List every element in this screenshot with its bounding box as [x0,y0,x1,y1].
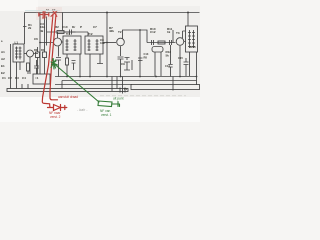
wire scan artifact [25,10,60,12]
capacitor C11 [152,40,154,45]
red text labels [42,16,78,119]
svg-text:4k: 4k [40,29,44,33]
svg-text:Tr1: Tr1 [66,32,71,36]
wire T2 collector loop [123,30,148,77]
capacitor C12 [170,40,172,45]
wire L1 leads [11,62,21,89]
output transformer box [186,26,198,52]
svg-text:R8: R8 [144,56,148,60]
faint fold line [100,95,186,97]
red scribble X [51,11,57,17]
capacitor C10 [124,58,130,71]
capacitor C13b [168,45,172,77]
red scan bleed halo [36,7,62,20]
svg-text:P: P [80,25,82,29]
wire R4 leads [44,46,46,75]
wire ferrite rod [10,44,12,62]
resistor R3 [36,52,40,58]
svg-text:R4: R4 [41,48,45,52]
diode green annotation symbol [98,101,120,107]
svg-text:uit punt: uit punt [113,97,124,101]
box bottom left [33,74,50,84]
wire T1 stage row [47,13,88,33]
coil Tr3b [192,30,195,48]
resistor R4 [43,52,47,58]
svg-text:A2: A2 [1,57,5,61]
svg-text:verst. 2: verst. 2 [50,115,61,119]
node [106,42,108,44]
wire x173 link [172,77,174,91]
svg-text:Tr2: Tr2 [88,32,93,36]
green text labels [100,97,124,118]
wire red highlight B [50,14,58,100]
svg-text:T2: T2 [118,30,122,34]
svg-text:C13: C13 [144,52,149,56]
svg-text:E1: E1 [1,64,5,68]
coil Tr3a [188,30,191,48]
svg-text:R3: R3 [15,76,19,80]
svg-text:E2: E2 [1,71,5,75]
transistor T1b circle [54,38,62,46]
resistor R9 [158,41,165,44]
wire box leads [190,52,197,76]
resistor R1 [27,63,30,71]
node top rail junction 1 [106,12,108,14]
wire detector row [103,42,116,44]
wire rail y76 [55,76,197,78]
svg-text:R2: R2 [55,25,59,29]
electrolytic C14 box [152,47,163,53]
svg-text:aansluit draad: aansluit draad [58,95,78,99]
wire shielded pair [45,13,47,40]
green scribble arrowhead [51,59,58,70]
wire left vertical [23,13,40,75]
label text small component values [1,8,196,91]
diode red annotation symbol [48,105,67,111]
svg-text:verst. 1: verst. 1 [101,113,112,117]
svg-text:C14: C14 [165,64,170,68]
svg-text:1k: 1k [167,30,171,34]
svg-text:R3: R3 [34,48,38,52]
svg-text:L1: L1 [15,41,19,45]
svg-text:A1: A1 [1,50,5,54]
annotation green lines [51,59,120,107]
svg-text:C2: C2 [8,76,12,80]
svg-text:C15: C15 [178,56,183,60]
IF transformer Tr1 box [63,36,81,54]
coil L1b [19,47,22,60]
svg-text:C6: C6 [34,37,38,41]
svg-text:C10: C10 [62,25,68,29]
wire Tr2 leads [90,54,103,77]
svg-text:9V: 9V [124,87,127,91]
capacitor red C [39,11,49,18]
wire C14 leads [147,43,161,77]
transistor T2 circle [117,38,125,46]
wire T2 emitter [120,46,122,56]
capacitor C9 [118,57,124,77]
capacitor C15 [184,58,189,76]
wire drop to Tr2 [87,32,89,36]
wire output transformer drop [187,13,189,27]
svg-text:C7: C7 [93,25,97,29]
wire battery drop [122,77,124,87]
wire T1b leads [40,32,63,57]
bus bar right [131,85,200,90]
wire [131,60,133,70]
wire x196 link [196,77,198,86]
capacitor C5 [56,58,61,77]
IF transformer Tr2 box [85,36,103,54]
wire T1 leads [30,54,38,75]
wire rail y84 [55,84,132,86]
paper background [0,0,200,122]
wire x112 [111,77,113,92]
svg-text:5k: 5k [166,54,170,58]
bus bar left [7,89,128,92]
svg-text:42k: 42k [109,29,114,33]
svg-text:- bah -: - bah - [77,108,88,112]
node rail dots [66,76,197,78]
coil Tr2b [96,39,99,51]
transistor T1 circle [27,50,34,57]
battery B1 [120,87,125,94]
wire T1 base [24,53,27,55]
coil Tr1a [66,39,69,51]
wire R3 leads [37,47,39,74]
svg-text:T3: T3 [176,31,180,35]
resistor R2 [57,31,64,34]
wire R1 lead [27,71,29,74]
transformer L1 box [13,44,24,62]
wire output row [147,42,176,44]
capacitor C4 [64,30,76,35]
node top rail junction 2 [187,12,189,14]
svg-text:C9: C9 [121,62,125,66]
wire R10 drop [172,30,174,43]
svg-text:C1: C1 [2,76,6,80]
node [139,29,141,31]
wire x62 link [61,81,63,89]
annotation red lines [39,11,67,111]
wire Tr1 leads [67,54,80,77]
wire green highlight diagonal [52,62,99,102]
capacitor C7 [72,61,76,71]
svg-text:10n: 10n [100,41,105,45]
svg-text:R14: R14 [190,45,196,49]
resistor R5 [66,58,69,65]
wire R7 drop [106,13,108,78]
wire red highlight A [42,14,53,107]
wire x117 drop [116,77,118,89]
wire rail y80 [62,80,197,82]
coil Tr2a [88,39,91,51]
svg-text:2k: 2k [28,26,32,30]
wire T3 leads [180,31,186,76]
wire top rail [25,12,200,14]
svg-text:=1: =1 [35,76,39,80]
svg-text:C12: C12 [150,30,156,34]
svg-text:C4: C4 [22,76,26,80]
capacitor C2 [22,60,39,89]
coil Tr1b [74,39,77,51]
transistor T3 circle [176,38,184,46]
coil L1a [15,47,18,60]
